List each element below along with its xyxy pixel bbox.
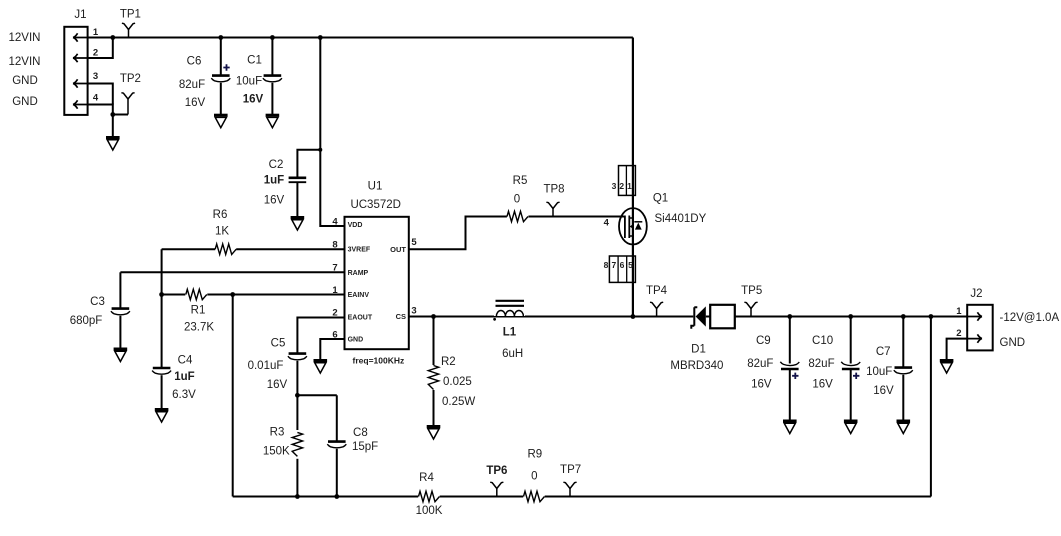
svg-text:12VIN: 12VIN <box>9 32 41 44</box>
svg-text:CS: CS <box>396 312 406 321</box>
svg-text:16V: 16V <box>267 379 288 391</box>
wire CS to switch node <box>409 316 633 318</box>
U1 pin numbers <box>332 216 417 340</box>
node pin1-pin2 junction <box>110 35 115 40</box>
label C1 <box>236 55 264 106</box>
svg-text:R9: R9 <box>527 449 542 461</box>
capacitor C6 <box>211 38 230 116</box>
label C10 <box>808 335 834 391</box>
svg-text:U1: U1 <box>368 181 383 193</box>
wire C5 to C8 branch <box>297 394 336 396</box>
test point TP5 <box>744 302 757 316</box>
svg-text:16V: 16V <box>243 94 264 106</box>
ground C9 <box>783 420 797 423</box>
capacitor C7 <box>894 317 913 422</box>
diode D1 MBRD340 <box>691 305 735 329</box>
svg-text:C10: C10 <box>812 335 833 347</box>
svg-text:C4: C4 <box>178 355 193 367</box>
node R3 bottom <box>295 494 300 499</box>
wire TP2 to ground net <box>113 114 128 116</box>
svg-text:TP4: TP4 <box>646 285 668 297</box>
resistor R5 <box>507 210 529 222</box>
label C4 <box>172 355 196 402</box>
svg-text:GND: GND <box>12 75 38 87</box>
transistor Q1 symbol <box>619 208 647 244</box>
svg-text:RAMP: RAMP <box>348 270 369 277</box>
svg-text:C7: C7 <box>876 346 891 358</box>
svg-text:C5: C5 <box>271 338 286 350</box>
svg-text:TP6: TP6 <box>486 465 507 477</box>
svg-text:GND: GND <box>12 96 38 108</box>
svg-text:23.7K: 23.7K <box>184 322 214 334</box>
wire D1 to J2 <box>735 316 967 318</box>
test point TP1 <box>122 23 135 37</box>
svg-text:TP7: TP7 <box>560 464 581 476</box>
svg-text:3: 3 <box>411 305 416 316</box>
svg-text:GND: GND <box>1000 337 1026 349</box>
svg-text:10uF: 10uF <box>236 76 262 88</box>
svg-text:C8: C8 <box>353 427 368 439</box>
svg-text:-12V@1.0A: -12V@1.0A <box>1000 312 1060 324</box>
wire OUT to gate <box>409 217 625 250</box>
svg-text:R6: R6 <box>213 209 228 221</box>
node C1 rail <box>270 35 275 40</box>
node VDD drop <box>318 35 323 40</box>
svg-text:VDD: VDD <box>348 222 363 229</box>
label C2 <box>264 159 285 207</box>
svg-text:EAOUT: EAOUT <box>348 315 373 322</box>
J2 pin numbers <box>956 306 962 339</box>
transistor Q1 pin box 8765 <box>604 256 636 282</box>
svg-text:TP8: TP8 <box>543 184 564 196</box>
svg-text:0: 0 <box>531 470 537 482</box>
svg-text:15pF: 15pF <box>352 441 378 453</box>
svg-text:0.25W: 0.25W <box>442 396 475 408</box>
svg-text:16V: 16V <box>812 379 833 391</box>
ground C7 <box>897 420 911 423</box>
svg-text:4: 4 <box>93 92 99 103</box>
wire 3VREF line <box>162 248 345 250</box>
capacitor C9 <box>780 317 799 422</box>
test point TP6 <box>490 482 503 496</box>
wire switch node to D1 <box>633 316 693 318</box>
wire J2 pin2 to ground <box>947 339 968 361</box>
svg-text:0.025: 0.025 <box>443 376 472 388</box>
test point TP4 <box>650 302 663 316</box>
svg-text:0: 0 <box>514 194 520 206</box>
svg-text:J2: J2 <box>970 288 982 300</box>
capacitor C1 <box>263 38 282 116</box>
svg-text:3: 3 <box>93 71 98 82</box>
capacitor C4 <box>152 368 171 410</box>
svg-text:C1: C1 <box>247 55 262 67</box>
svg-text:TP5: TP5 <box>741 285 762 297</box>
svg-text:16V: 16V <box>264 195 285 207</box>
inductor L1 core <box>496 301 525 306</box>
wire C3 branch <box>119 272 121 308</box>
label R1 <box>184 305 214 334</box>
J1 pin numbers <box>93 27 99 104</box>
wire EAOUT to C5 <box>297 318 344 354</box>
svg-text:R1: R1 <box>191 305 206 317</box>
test point TP2 <box>121 93 134 115</box>
label R5 <box>513 175 528 206</box>
svg-text:2: 2 <box>93 47 98 58</box>
svg-text:C9: C9 <box>756 335 771 347</box>
ground C2 <box>291 216 305 219</box>
node C6 rail <box>218 35 223 40</box>
svg-text:TP2: TP2 <box>120 73 141 85</box>
J1 pin labels <box>9 32 41 108</box>
label C7 <box>866 346 894 397</box>
capacitor C2 <box>289 178 307 218</box>
svg-text:16V: 16V <box>185 97 206 109</box>
node C10 <box>848 314 853 319</box>
svg-text:freq=100KHz: freq=100KHz <box>353 356 405 366</box>
svg-text:C3: C3 <box>90 296 105 308</box>
svg-text:4: 4 <box>604 218 610 229</box>
capacitor C3 <box>111 309 130 349</box>
resistor R4 <box>418 490 440 502</box>
ground U1 <box>314 359 328 362</box>
resistor R1 <box>185 288 207 300</box>
label L1 <box>502 326 523 360</box>
node C7 <box>901 314 906 319</box>
svg-text:EAINV: EAINV <box>348 292 370 299</box>
label C3 <box>70 296 105 327</box>
test point TP7 <box>563 482 576 496</box>
resistor R3 <box>292 395 302 496</box>
connector J2 <box>967 305 993 351</box>
node switch junction <box>631 314 636 319</box>
inductor L1 winding <box>493 309 525 321</box>
label R6 <box>213 209 230 238</box>
label C9 <box>747 335 773 391</box>
svg-text:Si4401DY: Si4401DY <box>655 213 707 225</box>
svg-text:MBRD340: MBRD340 <box>670 360 723 372</box>
node TP2 junction <box>110 112 115 117</box>
svg-text:680pF: 680pF <box>70 315 103 327</box>
wire output to bottom rail <box>930 317 932 497</box>
svg-text:2: 2 <box>956 328 961 339</box>
wire bottom rail <box>233 496 931 498</box>
svg-text:10uF: 10uF <box>866 366 892 378</box>
svg-text:150K: 150K <box>263 445 290 457</box>
ground C4 <box>155 408 169 411</box>
svg-text:Q1: Q1 <box>653 192 668 204</box>
label C6 <box>179 56 206 110</box>
label R2 <box>441 356 475 408</box>
ground J2 <box>940 359 954 362</box>
svg-text:8: 8 <box>604 260 609 270</box>
wire EAINV line <box>162 294 345 296</box>
node EAINV-feedback <box>230 292 235 297</box>
svg-text:1: 1 <box>956 306 962 317</box>
svg-text:6.3V: 6.3V <box>172 389 196 401</box>
svg-text:OUT: OUT <box>390 245 406 254</box>
svg-text:L1: L1 <box>503 326 517 338</box>
wire C2 tee <box>297 150 320 177</box>
svg-text:GND: GND <box>348 337 364 344</box>
svg-text:6uH: 6uH <box>502 348 523 360</box>
ground J1 <box>106 136 120 139</box>
ground C3 <box>114 348 128 351</box>
label R4 <box>416 472 443 517</box>
wire J1 pin2 to rail <box>88 38 113 59</box>
svg-text:4: 4 <box>332 216 338 227</box>
wire Q1 drain-source vertical <box>632 38 634 317</box>
svg-text:1: 1 <box>627 181 632 191</box>
svg-text:16V: 16V <box>873 385 894 397</box>
node EAINV-C4 <box>159 292 164 297</box>
wire J1 pin4 to ground <box>88 105 113 138</box>
svg-text:82uF: 82uF <box>747 358 773 370</box>
svg-text:5: 5 <box>411 237 417 248</box>
svg-text:12VIN: 12VIN <box>9 56 41 68</box>
node C2 tee <box>318 148 322 152</box>
svg-text:TP1: TP1 <box>120 9 141 21</box>
svg-text:C6: C6 <box>187 56 202 68</box>
wire rail to VDD <box>320 38 344 227</box>
node C9 <box>787 314 792 319</box>
U1 pin names <box>348 222 407 343</box>
wire +12V top rail <box>88 37 633 39</box>
capacitor C8 <box>327 395 346 496</box>
node R2 tap <box>431 314 436 319</box>
svg-text:1K: 1K <box>215 226 229 238</box>
wire R6 to C4 <box>161 249 163 367</box>
svg-text:0.01uF: 0.01uF <box>248 360 284 372</box>
label C5 <box>248 338 288 392</box>
svg-text:R5: R5 <box>513 175 528 187</box>
transistor Q1 pin box 321 <box>612 166 636 196</box>
ground C6 <box>214 114 228 117</box>
svg-text:3: 3 <box>612 181 617 191</box>
svg-text:82uF: 82uF <box>808 358 834 370</box>
label C8 <box>352 427 378 453</box>
label R3 <box>263 427 290 458</box>
svg-text:D1: D1 <box>691 344 706 356</box>
node feedback tap <box>929 314 934 319</box>
capacitor C10 <box>841 317 860 422</box>
ground C1 <box>266 114 280 117</box>
svg-text:100K: 100K <box>416 505 443 517</box>
svg-text:C2: C2 <box>269 159 284 171</box>
svg-text:1uF: 1uF <box>264 175 284 187</box>
svg-text:1uF: 1uF <box>174 371 194 383</box>
test point TP8 <box>546 202 559 216</box>
svg-text:1: 1 <box>93 27 99 38</box>
svg-text:R3: R3 <box>270 427 285 439</box>
svg-text:5: 5 <box>628 260 633 270</box>
op-amp U1 UC3572D body <box>345 217 409 349</box>
wire J1 pin3 <box>88 84 113 105</box>
svg-text:UC3572D: UC3572D <box>350 199 401 211</box>
svg-text:R2: R2 <box>441 356 456 368</box>
svg-text:82uF: 82uF <box>179 79 205 91</box>
capacitor C5 <box>288 354 307 396</box>
connector J1 <box>64 27 87 115</box>
resistor R2 <box>428 317 438 427</box>
resistor R9 <box>523 490 545 502</box>
ground R2 <box>427 425 441 428</box>
node C5 bottom <box>295 393 300 398</box>
wire feedback vertical <box>232 295 234 497</box>
svg-text:3VREF: 3VREF <box>348 247 371 254</box>
wire RAMP line <box>120 271 344 273</box>
svg-text:2: 2 <box>619 181 624 191</box>
svg-text:R4: R4 <box>419 472 434 484</box>
svg-text:6: 6 <box>620 260 625 270</box>
ground C10 <box>844 420 858 423</box>
wire U1 GND pin <box>320 339 344 361</box>
label R9 <box>527 449 542 483</box>
node C8 bottom <box>334 494 339 499</box>
resistor R6 <box>215 244 236 254</box>
svg-text:7: 7 <box>612 260 617 270</box>
svg-text:J1: J1 <box>74 9 86 21</box>
svg-text:16V: 16V <box>751 379 772 391</box>
